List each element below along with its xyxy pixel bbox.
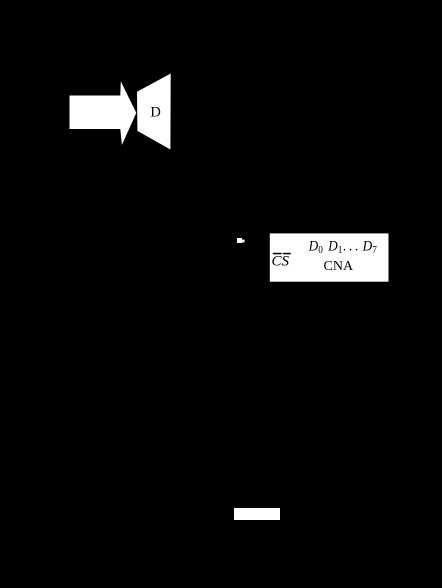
svg-text:CS: CS [272, 254, 290, 270]
bottom white bar [234, 508, 280, 520]
svg-text:CNA: CNA [324, 259, 354, 274]
svg-text:D0D1. . .D7: D0D1. . .D7 [308, 238, 377, 256]
label D0 D1 ... D7 (data bus) [308, 238, 377, 256]
block arrow (signal into speaker) [70, 81, 137, 145]
svg-text:D: D [150, 105, 160, 121]
CNA box (DAC) [270, 233, 389, 281]
label CS-bar (chip select) [272, 253, 291, 270]
node dot [237, 238, 245, 243]
speaker horn D [137, 74, 171, 150]
